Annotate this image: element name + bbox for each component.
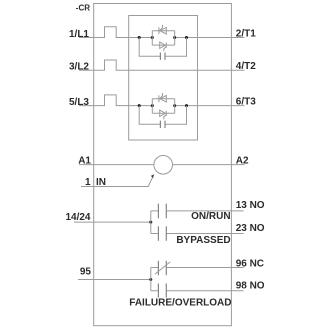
node L1 rect left junction xyxy=(151,36,154,39)
node L1 rect right junction xyxy=(173,36,176,39)
wire L1 bypass loop xyxy=(139,38,186,57)
node L1 bypass right junction xyxy=(185,36,188,39)
node L3 rect right junction xyxy=(173,104,176,107)
bypass contact K1 xyxy=(160,53,165,60)
wire contact 13 branch xyxy=(151,210,244,212)
wire contact 96 branch xyxy=(151,267,244,269)
wire L3 bypass loop xyxy=(139,106,186,125)
svg-text:ON/RUN: ON/RUN xyxy=(191,211,230,222)
svg-text:1/L1: 1/L1 xyxy=(69,29,89,40)
wire L1 thyristor frame xyxy=(152,31,174,45)
svg-text:95: 95 xyxy=(80,267,92,278)
thyristor V1 (top, reverse) xyxy=(159,25,166,34)
svg-text:6/T3: 6/T3 xyxy=(236,96,256,107)
svg-text:2/T1: 2/T1 xyxy=(236,29,256,40)
contact 13 NO ON/RUN xyxy=(158,204,166,219)
wire L2 through with bump xyxy=(79,60,245,70)
svg-text:3/L2: 3/L2 xyxy=(69,62,89,73)
wire 95 common xyxy=(78,279,151,281)
svg-text:13 NO: 13 NO xyxy=(236,200,265,211)
node L1 bypass left junction xyxy=(138,36,141,39)
wire contact 23 branch xyxy=(151,233,244,235)
svg-text:14/24: 14/24 xyxy=(65,212,90,223)
wire L3 input with bump xyxy=(79,95,152,106)
node L3 bypass left junction xyxy=(138,104,141,107)
wire coil to A2 xyxy=(173,164,245,166)
control coil U1 xyxy=(154,156,173,175)
wire L1 output to 2/T1 xyxy=(175,37,245,39)
wire L3 thyristor frame xyxy=(152,99,174,113)
wire branch riser 13/23 xyxy=(150,211,152,234)
wire contact 98 branch xyxy=(151,290,244,292)
wire IN control input xyxy=(81,175,154,187)
bypass contact K2 xyxy=(160,121,165,128)
wire branch riser 96/98 xyxy=(150,268,152,291)
svg-text:BYPASSED: BYPASSED xyxy=(176,235,230,246)
thyristor V2 (bottom, forward) xyxy=(160,42,167,51)
svg-text:FAILURE/OVERLOAD: FAILURE/OVERLOAD xyxy=(129,297,231,308)
arrowhead IN actuation xyxy=(151,174,154,178)
contact 23 NO BYPASSED xyxy=(158,226,166,241)
node 95 junction xyxy=(149,278,152,281)
svg-text:-CR: -CR xyxy=(76,4,90,13)
wire A1 to coil xyxy=(79,164,154,166)
wire L1 input with bump xyxy=(79,27,152,38)
outer enclosure box -CR xyxy=(94,4,232,326)
svg-text:A2: A2 xyxy=(236,155,249,166)
thyristor module box xyxy=(129,16,198,141)
wire 14/24 common xyxy=(74,221,151,223)
node L3 bypass right junction xyxy=(185,104,188,107)
wire L3 output to 6/T3 xyxy=(175,105,245,107)
thyristor V4 (bottom, forward) xyxy=(160,110,167,119)
svg-text:4/T2: 4/T2 xyxy=(236,61,256,72)
svg-text:96 NC: 96 NC xyxy=(236,258,264,269)
svg-text:23 NO: 23 NO xyxy=(236,223,265,234)
contact 96 NC bars xyxy=(158,261,166,275)
node 14/24 junction xyxy=(149,221,152,224)
contact 98 NO bars xyxy=(158,284,166,298)
svg-text:5/L3: 5/L3 xyxy=(69,97,89,108)
thyristor V3 (top, reverse) xyxy=(159,93,166,102)
svg-text:98 NO: 98 NO xyxy=(236,280,265,291)
contact 96 NC slash xyxy=(155,262,170,274)
node L3 rect left junction xyxy=(151,104,154,107)
